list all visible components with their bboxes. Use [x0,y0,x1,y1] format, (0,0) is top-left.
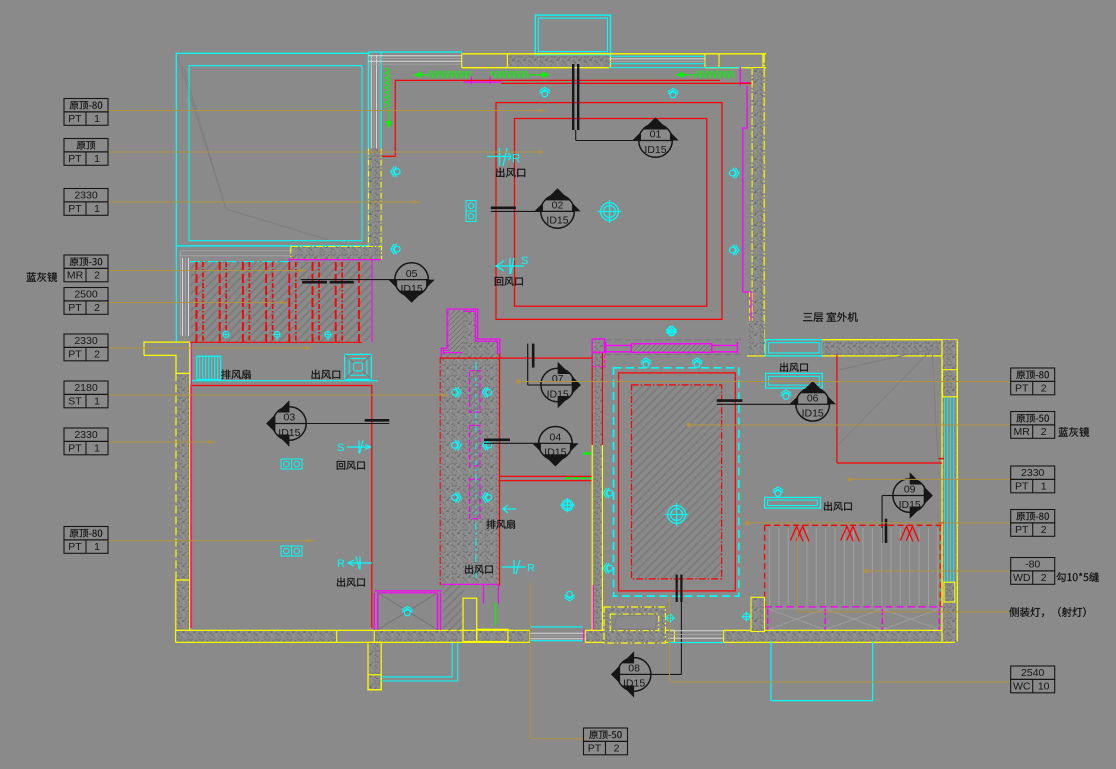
leader to 05 [301,279,395,281]
air outlet text [312,370,341,379]
svg-text:1: 1 [94,396,100,408]
stair window left [182,258,184,336]
cyan line under threshold [668,642,724,644]
hall wall magenta pier [592,339,604,352]
exhaust fan box [197,356,221,379]
duct bottom magenta line [442,583,499,585]
svg-text:2: 2 [94,349,100,361]
svg-text:S: S [337,442,344,454]
light symbol [730,168,739,178]
air outlet text [496,168,525,178]
exhaust fan text [221,370,251,380]
top wall right bedroom [822,340,942,356]
second red line top [501,82,753,84]
air outlet text [337,578,365,587]
balcony cyan rail [771,641,873,700]
magenta tick right of window [583,630,585,642]
light symbol [666,326,676,335]
svg-text:MR: MR [1014,426,1031,438]
entry closet magenta [441,309,500,358]
bay window cyan [766,340,823,356]
door jamb pier bottom right [751,597,764,631]
svg-text:2330: 2330 [1021,467,1045,479]
svg-text:R: R [512,154,520,166]
section cut for 06 [717,399,743,402]
svg-text:PT: PT [68,153,82,165]
right bedroom red boundary [836,355,838,464]
window cyan edge top [368,51,462,53]
balcony inner cyan [538,18,607,52]
curtain box magenta at bedroom top [606,344,632,346]
svg-text:-80: -80 [1025,559,1040,571]
duct lower hatch pier [443,583,465,630]
label box 原顶/PT 1 [64,139,108,166]
svg-text:2180: 2180 [74,382,98,394]
window lines vertical [367,52,369,149]
duct centerline [475,362,477,578]
svg-text:1: 1 [94,203,100,215]
light symbol [668,88,678,97]
svg-text:R: R [527,563,535,575]
leader vertical for downlight label [797,530,799,612]
svg-text:2: 2 [1041,524,1047,536]
svg-text:ID15: ID15 [547,388,569,400]
door frame yellow right [477,629,508,641]
duct magenta boxes [470,371,481,413]
svg-text:1: 1 [94,113,100,125]
ceiling outer red rect [496,103,722,320]
svg-text:1: 1 [1041,481,1047,493]
exhaust fan text [486,520,515,529]
label box 原顶-80/PT 2 [1011,510,1055,537]
left wall tab [144,342,190,373]
lamp symbol [281,546,302,556]
bottom label leader [529,583,531,739]
svg-text:ID15: ID15 [802,408,824,420]
door frame yellow left [463,598,477,641]
green dash on divider [565,477,592,479]
curtain coil right group [677,74,696,76]
light symbol [603,488,612,498]
right leader lines [519,381,1010,383]
svg-text:06: 06 [807,393,819,405]
label box 2180/ST 1 [64,381,108,408]
return air text [495,277,523,286]
light symbol [692,358,702,367]
leader to 04 [484,442,539,444]
stair nosing symbols [223,332,229,341]
bottom window lines [530,632,586,634]
bedroom red rect [619,373,736,591]
label box -80/WD 2 [1011,558,1055,585]
svg-text:2: 2 [614,743,620,755]
label box 2330/PT 1 [64,189,108,216]
svg-text:2330: 2330 [74,335,98,347]
lamp symbol [281,459,302,469]
leader to 07 [528,384,541,386]
small fitting symbol [665,613,675,623]
cyan line below fans [190,380,379,382]
vent mid right [765,497,821,508]
outdoor unit text [803,312,857,322]
light symbol [564,591,574,600]
red arrows on wardrobe [790,526,809,541]
bedroom cyan dashed ceiling rect [614,368,739,596]
green door line [495,603,497,626]
stair treads red [196,262,198,342]
light symbol [730,245,739,255]
light symbol [402,606,412,615]
label box 2330/PT 1 [64,428,108,455]
label box 原顶-80/PT 1 [64,527,108,554]
air outlet symbol R [487,148,511,166]
exhaust fan arrow [503,505,516,513]
light symbol [603,563,612,573]
svg-text:10: 10 [1038,681,1050,693]
wall pier below window column [368,149,381,252]
hall wall magenta lower edge [592,585,594,630]
door leaf slant quad [614,615,657,629]
svg-text:PT: PT [68,349,82,361]
light symbol [641,358,651,367]
leader to 02 [491,210,541,212]
balcony outer cyan [535,15,610,55]
bottom wall fill [176,630,337,642]
light symbol [482,387,491,397]
svg-text:2: 2 [1041,383,1047,395]
svg-text:2330: 2330 [74,429,98,441]
living red boundary [190,386,371,629]
svg-text:ID15: ID15 [546,215,568,227]
sunroom outer cyan wall [176,53,368,246]
svg-text:09: 09 [904,484,916,496]
right exterior wall [942,340,957,642]
green dash marks [583,452,591,455]
svg-text:PT: PT [68,443,82,455]
svg-text:MR: MR [67,270,84,282]
red line below stair [190,341,362,343]
top wall yellow edges [462,53,767,55]
left wall fill [176,373,190,580]
svg-text:2: 2 [1041,572,1047,584]
label box 原顶-50/MR 2 [1011,412,1055,439]
ceiling centre target symbol [560,498,574,512]
leader to 06 [717,403,796,405]
label box 2330/PT 1 [1011,466,1055,493]
light symbol [666,327,676,336]
section line for 08 [676,575,678,602]
sunroom left wall lower cyan [175,246,177,342]
label box 2330/PT 2 [64,334,108,361]
left leader lines [106,110,546,112]
wardrobe red dashed border [765,524,943,526]
window lines horizontal top-left [368,55,461,57]
right wall magenta face [743,86,751,340]
wall box above stair right [291,247,382,260]
leader to 03 [306,423,389,425]
section marker 08 [611,651,651,697]
svg-text:PT: PT [68,203,82,215]
light symbol [452,492,461,502]
return air text [337,461,365,470]
light symbol [391,166,400,176]
text 蓝灰镜 left [27,272,58,282]
door threshold lines [668,630,724,632]
svg-text:WC: WC [1013,681,1031,693]
section marker 02 [534,188,580,228]
duct wall red edge [499,354,501,586]
text 蓝灰镜 right [1059,427,1090,437]
ceiling inner red rect [515,119,707,307]
svg-text:ST: ST [68,396,82,408]
hall wall yellow part [591,445,593,631]
svg-text:PT: PT [588,743,602,755]
svg-text:ID15: ID15 [401,283,423,295]
svg-text:PT: PT [68,541,82,553]
light symbol [781,390,791,399]
label box 原顶-50/PT 2 [584,728,628,755]
svg-text:ID15: ID15 [899,499,921,511]
label box 原顶-80/PT 2 [1011,368,1055,395]
light symbol [482,440,491,450]
svg-text:2500: 2500 [74,289,98,301]
svg-text:PT: PT [68,302,82,314]
section marker 03 [266,400,306,446]
svg-text:S: S [521,255,528,267]
ceiling centre target symbol [665,503,688,526]
door jamb magenta lines [483,585,485,604]
svg-text:04: 04 [550,432,562,444]
curtain coil left group [415,74,428,76]
square diffuser [345,354,372,379]
svg-text:08: 08 [628,663,640,675]
svg-text:1: 1 [94,443,100,455]
light symbol [482,492,491,502]
right wall fill [752,68,764,340]
svg-text:2330: 2330 [74,190,98,202]
svg-text:01: 01 [650,129,662,141]
svg-text:2: 2 [94,302,100,314]
section line for 07 [527,344,529,385]
svg-text:ID15: ID15 [623,678,645,690]
bottom stair protrusion [368,642,381,689]
wardrobe area stripes [770,528,938,606]
right wall yellow edges dash-dot [751,68,753,340]
text 侧装灯（射灯） [1009,607,1085,617]
hall wall red part [591,342,593,445]
bottom wall yellow edges [176,629,530,631]
window sill gray lines below sunroom [180,250,290,252]
svg-text:2540: 2540 [1021,667,1045,679]
label box 2540/WC 10 [1011,666,1055,693]
svg-text:2: 2 [94,270,100,282]
svg-text:2: 2 [1041,426,1047,438]
cyan line under top wall [609,67,741,69]
leader vertical for WC label [669,596,671,682]
light symbol [391,244,400,254]
section marker 09 [893,472,933,518]
svg-text:02: 02 [552,200,564,212]
top wall edge over balcony [533,53,613,55]
small fitting symbol [742,612,752,622]
curtain coil vertical left wall [385,68,390,107]
svg-text:ID15: ID15 [544,447,566,459]
leader to 01 [576,140,639,142]
svg-text:PT: PT [68,113,82,125]
section cut for 02 [491,207,516,210]
left wall lower [176,580,190,630]
air outlet R symbol [348,557,372,570]
leader to 09 [882,495,893,497]
bath air outlet text [465,565,493,574]
svg-text:PT: PT [1015,524,1029,536]
section marker 05 [388,263,434,303]
top window lines [609,55,705,57]
svg-text:ID15: ID15 [278,427,300,439]
wardrobe magenta dashed line [765,606,943,608]
curtain track magenta [464,81,502,83]
svg-text:05: 05 [406,268,418,280]
text 勾10*5缝 [1056,572,1099,582]
svg-text:03: 03 [284,412,296,424]
magenta line below wall box [289,259,382,261]
section marker 01 [632,117,678,157]
wall pier right of door [747,321,764,356]
stair hatch area [191,262,372,342]
hidden wall dashes [605,339,742,341]
ceiling centre target symbol [598,200,621,223]
label box 2500/PT 2 [64,288,108,315]
return air S symbol [347,441,371,454]
return air symbol S [496,258,524,274]
closet inner box [610,614,658,631]
lamp symbol [466,201,476,222]
vent top right [780,363,808,372]
light symbol [452,387,461,397]
stair cyan border [190,261,289,263]
label box 原顶-30/MR 2 [64,255,108,282]
svg-text:1: 1 [94,541,100,553]
svg-text:1: 1 [94,153,100,165]
hall wall fill [592,342,602,631]
sunroom inner cyan wall [189,66,362,241]
svg-text:07: 07 [552,373,564,385]
svg-text:PT: PT [1015,383,1029,395]
bathroom divider red double [500,475,593,477]
section line for 01 [572,64,574,130]
svg-text:R: R [337,558,345,570]
top wall speckled block under balcony [507,54,609,67]
red entry line [440,357,592,359]
section marker 04 [532,427,578,467]
wardrobe X cabinets [768,609,826,630]
section marker 07 [541,362,581,408]
railing cyan lines [381,676,452,678]
sunroom roof slope faint lines [177,55,352,247]
roof slope faint lines right [838,349,938,460]
svg-text:WD: WD [1013,572,1031,584]
svg-text:PT: PT [1015,481,1029,493]
leader to 08 [651,673,681,675]
section cut for 04 [484,438,510,441]
light symbol [452,440,461,450]
label box 原顶-80/PT 1 [64,99,108,126]
svg-text:ID15: ID15 [644,144,666,156]
red wall ticks [938,458,944,460]
room boundary red top [395,80,720,156]
light symbol [540,87,550,96]
bath air outlet symbol R [502,560,526,574]
skylight X box [374,590,441,592]
section marker 06 [790,381,836,421]
light symbol [773,487,783,496]
right wall window cyan lines [944,397,956,583]
duct wall fill [442,354,500,586]
bedroom inner red hatched rect [632,385,722,579]
closet box yellow dashed [604,607,665,643]
